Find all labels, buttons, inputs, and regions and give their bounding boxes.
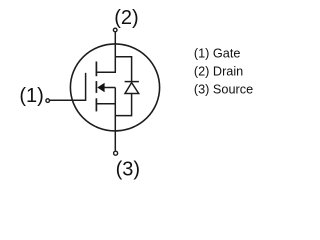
svg-text:(1) Gate: (1) Gate	[194, 47, 241, 61]
svg-text:(2): (2)	[114, 7, 138, 29]
svg-text:(3) Source: (3) Source	[194, 83, 253, 97]
svg-text:(2) Drain: (2) Drain	[194, 65, 243, 79]
svg-text:(1): (1)	[19, 85, 43, 107]
svg-text:(3): (3)	[116, 159, 140, 181]
